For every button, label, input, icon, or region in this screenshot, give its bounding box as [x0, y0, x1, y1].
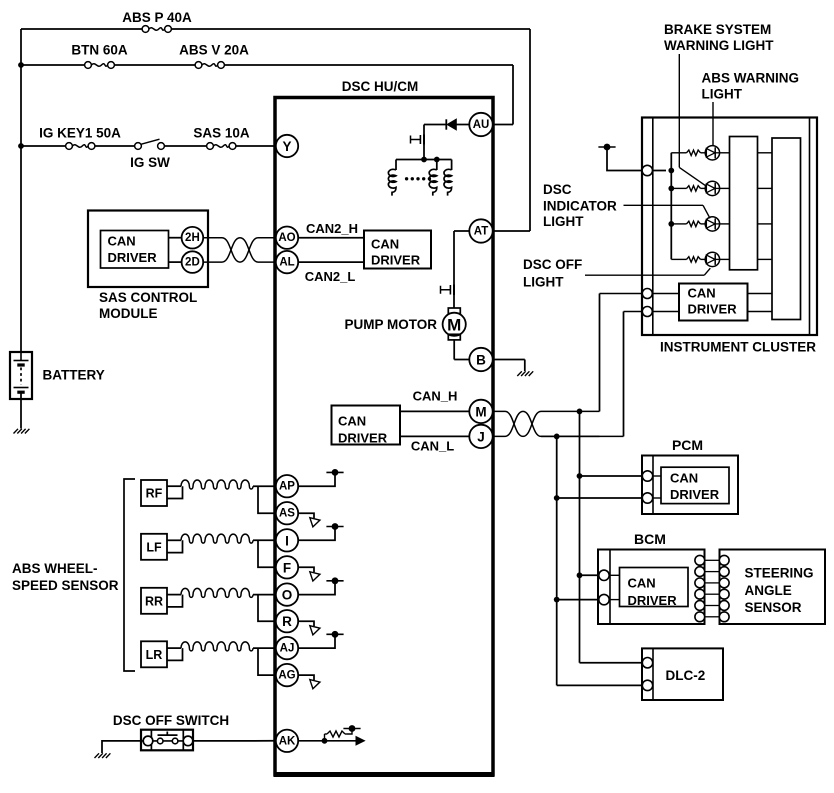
svg-text:AO: AO	[278, 232, 295, 244]
svg-text:WARNING LIGHT: WARNING LIGHT	[664, 38, 774, 53]
svg-text:CAN: CAN	[108, 234, 136, 249]
svg-text:CAN: CAN	[688, 286, 716, 301]
svg-text:MODULE: MODULE	[99, 306, 158, 321]
svg-text:ABS V 20A: ABS V 20A	[179, 43, 249, 58]
svg-text:DRIVER: DRIVER	[371, 253, 421, 268]
svg-text:2H: 2H	[185, 232, 200, 244]
svg-text:STEERING: STEERING	[745, 566, 814, 581]
svg-text:ABS WHEEL-: ABS WHEEL-	[12, 561, 98, 576]
svg-text:R: R	[282, 614, 292, 629]
svg-text:CAN2_H: CAN2_H	[306, 221, 358, 236]
svg-text:ABS WARNING: ABS WARNING	[702, 71, 800, 86]
svg-text:AP: AP	[279, 481, 295, 493]
svg-text:BATTERY: BATTERY	[43, 368, 105, 383]
svg-text:LR: LR	[146, 648, 163, 662]
svg-text:I: I	[285, 533, 289, 548]
svg-text:AL: AL	[279, 257, 294, 269]
svg-text:SAS CONTROL: SAS CONTROL	[99, 290, 197, 305]
svg-text:AG: AG	[278, 670, 295, 682]
svg-text:J: J	[477, 429, 485, 444]
svg-text:IG KEY1 50A: IG KEY1 50A	[39, 126, 121, 141]
svg-text:DSC HU/CM: DSC HU/CM	[342, 79, 419, 94]
svg-text:BCM: BCM	[634, 531, 666, 547]
svg-text:AJ: AJ	[280, 643, 295, 655]
svg-text:CAN: CAN	[371, 237, 399, 252]
svg-text:DLC-2: DLC-2	[666, 668, 706, 683]
svg-text:RF: RF	[146, 487, 163, 501]
svg-text:DSC OFF: DSC OFF	[523, 257, 582, 272]
svg-text:PCM: PCM	[672, 437, 703, 453]
svg-text:DSC: DSC	[543, 182, 572, 197]
svg-text:INDICATOR: INDICATOR	[543, 199, 617, 214]
svg-text:AT: AT	[474, 226, 488, 238]
svg-text:O: O	[282, 588, 293, 603]
svg-text:LF: LF	[146, 540, 162, 554]
svg-text:CAN: CAN	[628, 576, 656, 591]
svg-text:F: F	[283, 560, 291, 575]
svg-text:IG SW: IG SW	[130, 155, 170, 170]
svg-text:ABS P 40A: ABS P 40A	[122, 10, 192, 25]
svg-text:DRIVER: DRIVER	[338, 431, 388, 446]
svg-text:SPEED SENSOR: SPEED SENSOR	[12, 578, 119, 593]
svg-text:DSC OFF SWITCH: DSC OFF SWITCH	[113, 713, 229, 728]
svg-text:B: B	[476, 353, 486, 368]
svg-text:SENSOR: SENSOR	[745, 600, 802, 615]
svg-text:LIGHT: LIGHT	[543, 214, 584, 229]
svg-text:LIGHT: LIGHT	[523, 275, 564, 290]
svg-text:SAS 10A: SAS 10A	[193, 126, 250, 141]
svg-text:M: M	[447, 316, 461, 335]
svg-text:AU: AU	[473, 119, 490, 131]
svg-text:BRAKE SYSTEM: BRAKE SYSTEM	[664, 22, 771, 37]
svg-text:M: M	[475, 404, 486, 419]
svg-text:DRIVER: DRIVER	[688, 302, 738, 317]
svg-text:PUMP MOTOR: PUMP MOTOR	[344, 317, 437, 332]
svg-text:DRIVER: DRIVER	[108, 250, 158, 265]
svg-text:CAN_L: CAN_L	[411, 439, 454, 454]
svg-text:DRIVER: DRIVER	[670, 487, 720, 502]
svg-text:ANGLE: ANGLE	[745, 583, 792, 598]
svg-text:CAN: CAN	[338, 414, 366, 429]
svg-text:INSTRUMENT CLUSTER: INSTRUMENT CLUSTER	[660, 340, 816, 355]
svg-text:CAN2_L: CAN2_L	[305, 269, 356, 284]
svg-text:AK: AK	[279, 735, 296, 747]
svg-text:LIGHT: LIGHT	[702, 87, 743, 102]
svg-text:CAN: CAN	[670, 471, 698, 486]
svg-text:RR: RR	[145, 594, 163, 608]
svg-text:DRIVER: DRIVER	[628, 593, 678, 608]
svg-text:2D: 2D	[185, 257, 200, 269]
svg-text:BTN 60A: BTN 60A	[71, 43, 128, 58]
svg-text:Y: Y	[282, 139, 291, 154]
svg-text:AS: AS	[279, 508, 295, 520]
svg-text:CAN_H: CAN_H	[413, 389, 458, 404]
